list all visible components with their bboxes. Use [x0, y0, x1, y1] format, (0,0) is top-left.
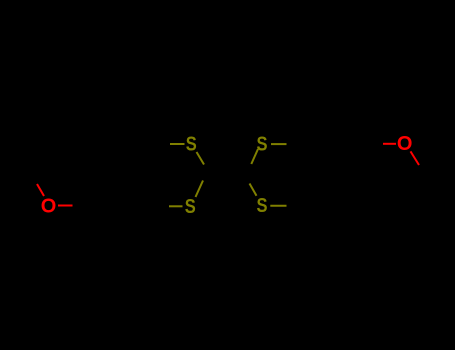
- svg-text:S: S: [186, 133, 197, 155]
- svg-text:O: O: [397, 133, 413, 155]
- svg-text:S: S: [257, 195, 268, 217]
- svg-text:O: O: [41, 196, 57, 218]
- svg-text:S: S: [257, 133, 268, 155]
- svg-text:S: S: [185, 196, 196, 218]
